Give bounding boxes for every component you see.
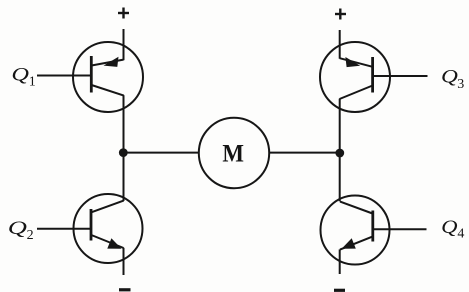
wire Q2 base [37, 228, 91, 230]
wire Q3 base [373, 75, 428, 77]
transistor Q3 (PNP, mirrored, emitter to +) [320, 42, 390, 112]
label Q3 [441, 67, 464, 92]
svg-text:Q: Q [441, 67, 458, 88]
wire Q3 collector to node B [339, 99, 341, 153]
label Q1 [11, 65, 35, 90]
transistor Q4 (NPN, mirrored, emitter to −) [321, 196, 390, 265]
svg-text:Q: Q [11, 65, 29, 86]
supply − (right) [334, 289, 345, 292]
wire Q2 collector to node A [123, 153, 125, 201]
wire Q4 emitter to − [339, 249, 341, 274]
wire motor right terminal to node B [269, 152, 340, 154]
svg-text:Q: Q [441, 217, 458, 238]
supply − (left) [119, 288, 131, 291]
wire Q4 base [373, 228, 427, 230]
wire Q1 base [37, 75, 91, 77]
svg-text:2: 2 [27, 228, 34, 243]
svg-text:M: M [222, 140, 244, 167]
svg-text:3: 3 [457, 77, 464, 92]
transistor Q2 (NPN, emitter to −) [74, 194, 143, 263]
node A junction dot [119, 148, 128, 157]
wire node B to Q4 collector [339, 153, 341, 201]
wire right supply to Q3 emitter [339, 30, 341, 59]
svg-text:4: 4 [457, 226, 464, 241]
label Q4 [441, 217, 464, 241]
wire left supply to Q1 emitter [123, 29, 125, 60]
node B junction dot [335, 149, 344, 158]
wire Q1 collector to node A [123, 95, 125, 153]
wire node A to motor left terminal [124, 152, 199, 154]
svg-text:Q: Q [8, 218, 28, 239]
label Q2 [8, 218, 34, 243]
power + (left supply terminal) [118, 8, 129, 19]
wire Q2 emitter to − [123, 248, 125, 275]
motor M circle [199, 118, 269, 188]
transistor Q1 (PNP, emitter to +) [73, 42, 143, 112]
power + (right supply terminal) [335, 9, 346, 20]
svg-text:1: 1 [29, 74, 36, 89]
